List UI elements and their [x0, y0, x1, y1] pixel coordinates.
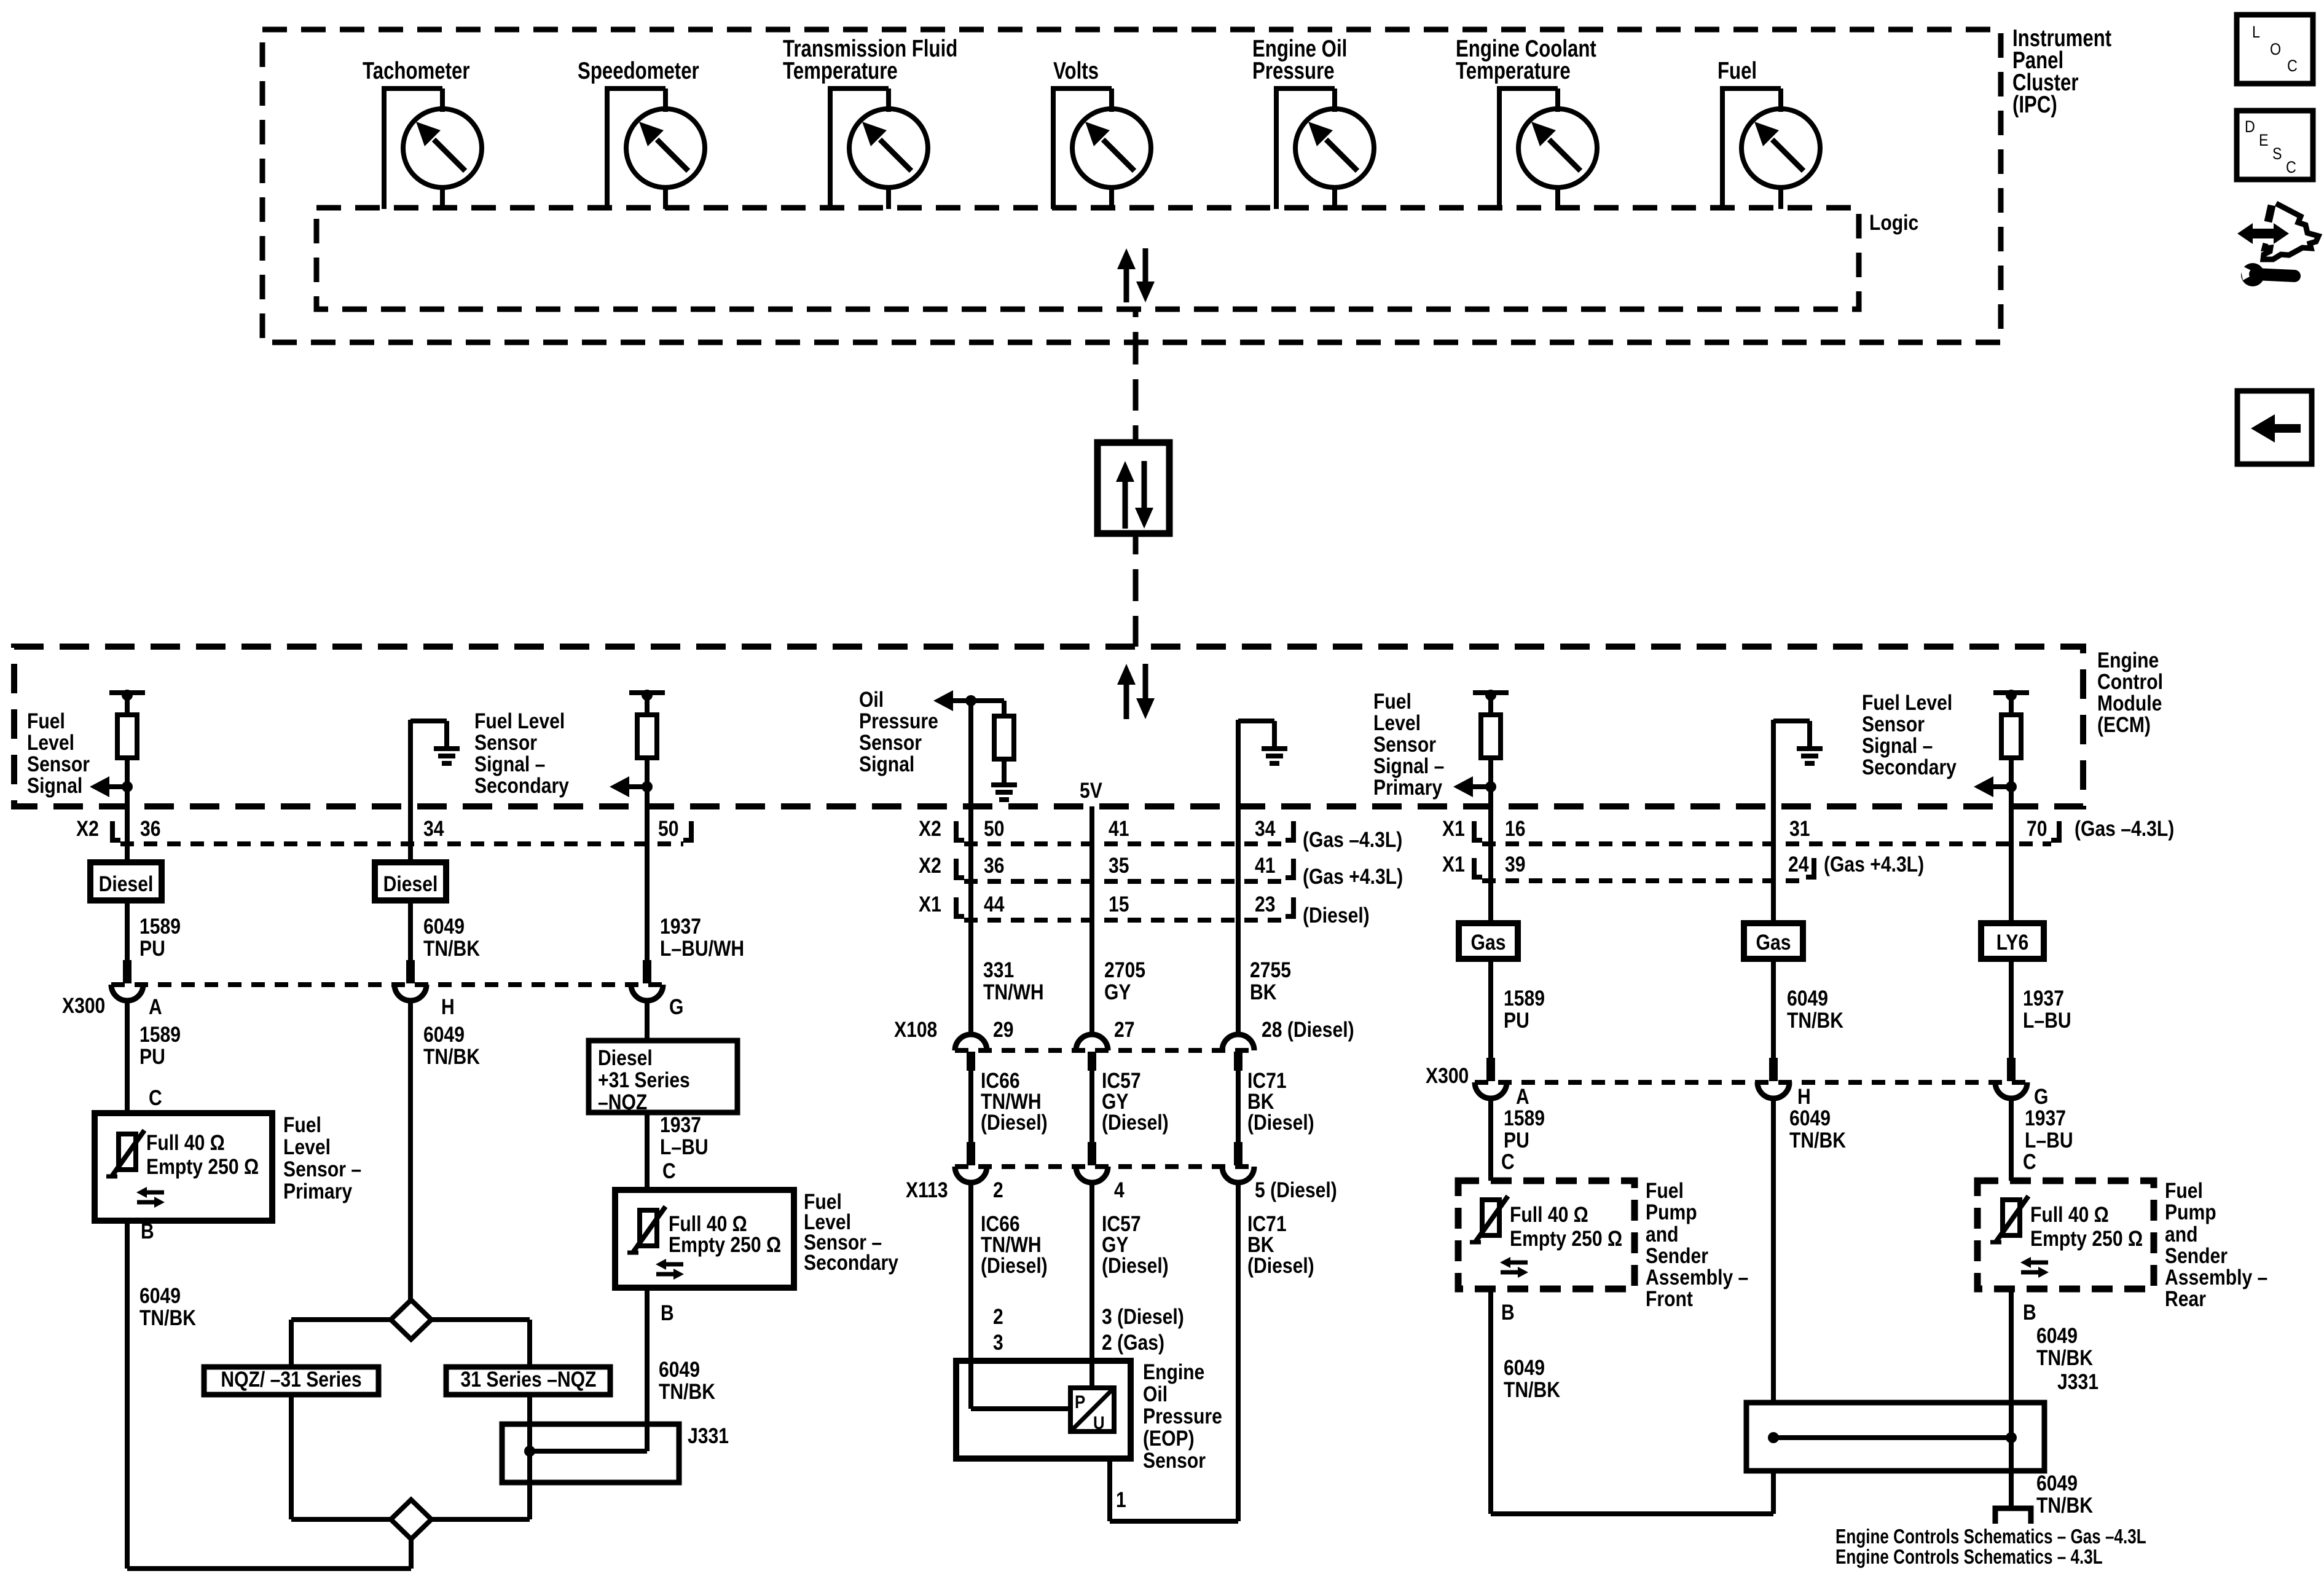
svg-text:Full 40 Ω: Full 40 Ω	[146, 1131, 225, 1155]
wire col C label 1937 L-BU/WH	[647, 845, 744, 961]
svg-text:6049: 6049	[659, 1358, 700, 1382]
connector X108 row	[894, 1018, 1354, 1050]
svg-text:X1: X1	[1442, 853, 1465, 876]
wire right branch lower	[431, 1395, 530, 1519]
gauge Fuel	[1720, 89, 1820, 209]
svg-text:36: 36	[984, 854, 1005, 878]
wire col G	[1488, 758, 1493, 844]
gauge Engine Oil Pressure	[1274, 89, 1374, 209]
svg-text:Gas: Gas	[1471, 931, 1506, 955]
svg-text:PU: PU	[139, 1045, 165, 1069]
Diesel tag col B	[375, 862, 446, 900]
connector terminal X300 right pin A	[1475, 1058, 1507, 1098]
wire col D labels 331 TN/WH	[971, 845, 1044, 1035]
splice J331 right label	[2057, 1370, 2098, 1394]
pin B col C	[661, 1301, 674, 1325]
Full/Empty values primary	[146, 1131, 259, 1179]
svg-text:44: 44	[984, 892, 1005, 916]
wire col C into J331	[645, 1288, 650, 1451]
svg-text:Sensor: Sensor	[27, 752, 90, 776]
back arrow box	[2237, 391, 2312, 464]
svg-text:Fuel: Fuel	[2165, 1179, 2203, 1203]
gauge labels	[363, 36, 1757, 84]
svg-text:–NQZ: –NQZ	[598, 1090, 647, 1114]
svg-text:PU: PU	[1504, 1009, 1529, 1033]
wire col A bottom	[127, 1221, 411, 1569]
J331 internal link left	[524, 1446, 647, 1457]
svg-text:Speedometer: Speedometer	[578, 58, 699, 84]
svg-text:PU: PU	[139, 937, 165, 961]
svg-text:Temperature: Temperature	[783, 58, 898, 84]
gauge Transmission Fluid Temperature	[828, 89, 928, 209]
svg-text:GY: GY	[1104, 980, 1131, 1004]
Fuel Pump and Sender Assembly - Front dashed box	[1458, 1181, 1635, 1289]
svg-text:Signal: Signal	[27, 774, 82, 798]
wire col D to EOP	[971, 1183, 1048, 1409]
svg-text:S: S	[2272, 144, 2282, 163]
variable resistor front sender	[1470, 1196, 1508, 1243]
svg-text:Secondary: Secondary	[474, 774, 569, 798]
svg-text:Sender: Sender	[2165, 1244, 2228, 1268]
svg-text:B: B	[1501, 1301, 1515, 1325]
wire col I 1937 L-BU	[2011, 959, 2071, 1058]
Fuel Level Sensor Signal - Secondary label	[474, 709, 569, 798]
serial data dashed wire upper	[1133, 309, 1139, 444]
svg-text:X300: X300	[62, 994, 105, 1018]
svg-text:Tachometer: Tachometer	[363, 58, 470, 84]
svg-text:H: H	[441, 995, 455, 1019]
svg-text:Sensor: Sensor	[1143, 1449, 1206, 1473]
svg-text:(Diesel): (Diesel)	[1303, 904, 1370, 927]
wire col B to Diesel tag	[408, 845, 413, 862]
Fuel Level Sensor Signal - Secondary label right	[1862, 691, 1957, 779]
signal arrow Fuel Level Sensor Signal - Secondary gas	[1974, 776, 2017, 797]
connector X300 left row	[62, 985, 683, 1019]
wire col F to EOP pin 1	[1110, 1183, 1314, 1521]
svg-text:Pressure: Pressure	[1143, 1404, 1222, 1428]
wire col H 6049 TN/BK	[1773, 959, 1843, 1058]
Fuel Level Sensor - Primary box	[95, 1113, 272, 1221]
svg-text:29: 29	[993, 1018, 1014, 1042]
svg-text:TN/BK: TN/BK	[2036, 1494, 2093, 1518]
svg-text:Pressure: Pressure	[859, 709, 938, 733]
connector terminal X300 right pin H	[1757, 1058, 1789, 1098]
svg-text:Oil: Oil	[859, 688, 884, 712]
svg-text:Temperature: Temperature	[1456, 58, 1571, 84]
svg-text:TN/BK: TN/BK	[2036, 1346, 2093, 1370]
IPC label	[2012, 25, 2111, 118]
svg-text:A: A	[1516, 1085, 1529, 1109]
svg-text:24: 24	[1788, 853, 1809, 876]
svg-text:Engine Controls Schematics – G: Engine Controls Schematics – Gas –4.3L	[1835, 1525, 2146, 1548]
connector terminal X113 pin 4	[1076, 1142, 1108, 1183]
svg-text:1589: 1589	[139, 915, 181, 939]
Fuel Pump and Sender Assembly - Front label	[1646, 1179, 1748, 1311]
svg-text:23: 23	[1255, 892, 1276, 916]
connector terminal X113 pin 5	[1222, 1142, 1254, 1183]
svg-text:TN/BK: TN/BK	[139, 1306, 196, 1330]
svg-text:2 (Gas): 2 (Gas)	[1102, 1331, 1164, 1355]
svg-text:31 Series –NQZ: 31 Series –NQZ	[461, 1368, 597, 1392]
wire col E 5V	[1089, 806, 1094, 845]
svg-text:(Diesel): (Diesel)	[1247, 1111, 1314, 1135]
node col I terminus	[1993, 690, 2029, 715]
svg-text:Fuel Level: Fuel Level	[1862, 691, 1952, 715]
svg-text:Secondary: Secondary	[804, 1251, 898, 1275]
svg-text:1589: 1589	[1504, 986, 1545, 1010]
5V label	[1080, 779, 1102, 803]
svg-text:and: and	[1646, 1223, 1679, 1246]
wire col B below X300	[410, 1001, 480, 1300]
svg-text:C: C	[2023, 1150, 2036, 1174]
svg-text:D: D	[2245, 117, 2255, 136]
svg-text:41: 41	[1255, 854, 1276, 878]
gauge Volts	[1051, 89, 1151, 209]
svg-text:Sensor: Sensor	[1373, 733, 1436, 757]
signal arrow Oil Pressure Sensor Signal	[933, 690, 976, 711]
Diesel +31 Series -NQZ tag	[589, 1041, 737, 1114]
bidirectional arrows primary	[136, 1187, 165, 1208]
svg-text:1589: 1589	[1504, 1106, 1545, 1130]
wire col D branch to pull-up	[971, 701, 1004, 716]
svg-text:Primary: Primary	[283, 1179, 353, 1203]
gauge Engine Coolant Temperature	[1497, 89, 1597, 209]
bidirectional arrows front	[1500, 1257, 1528, 1278]
ground ECM internal ground D	[991, 785, 1017, 800]
svg-text:NQZ/ –31 Series: NQZ/ –31 Series	[221, 1368, 361, 1392]
wire col F labels 2755 BK	[1238, 845, 1291, 1035]
resistor ECM pull-up col D	[994, 716, 1014, 759]
svg-text:B: B	[141, 1219, 154, 1243]
svg-text:A: A	[149, 995, 162, 1019]
svg-text:Control: Control	[2097, 670, 2163, 694]
svg-text:Level: Level	[283, 1135, 331, 1159]
wire col A	[125, 758, 130, 845]
svg-text:6049: 6049	[1787, 986, 1828, 1010]
wire col D inside EOP	[971, 1406, 1070, 1411]
svg-text:PU: PU	[1504, 1128, 1529, 1152]
connector terminal X108 pin 29	[955, 1034, 987, 1071]
svg-text:Primary: Primary	[1373, 776, 1443, 800]
svg-text:Empty 250 Ω: Empty 250 Ω	[2030, 1227, 2143, 1251]
Fuel Level Sensor - Secondary box	[615, 1190, 794, 1288]
svg-text:34: 34	[1255, 817, 1276, 841]
gauge Tachometer	[382, 89, 482, 209]
wire left branch	[291, 1320, 391, 1367]
wire col I	[2009, 758, 2014, 844]
svg-text:G: G	[669, 995, 683, 1019]
svg-text:C: C	[2287, 57, 2298, 75]
bidirectional arrows rear	[2020, 1257, 2049, 1278]
svg-text:L–BU: L–BU	[2025, 1128, 2073, 1152]
svg-text:1937: 1937	[2025, 1106, 2066, 1130]
svg-text:Engine: Engine	[2097, 648, 2159, 672]
svg-text:4: 4	[1114, 1178, 1125, 1202]
wire col I to LY6 tag	[2009, 844, 2014, 923]
svg-text:Sensor –: Sensor –	[283, 1157, 361, 1181]
svg-text:Logic: Logic	[1869, 211, 1918, 235]
svg-text:6049: 6049	[2036, 1324, 2078, 1348]
svg-text:Sensor: Sensor	[859, 731, 922, 755]
ground ECM internal ground H	[1797, 749, 1823, 763]
svg-text:Level: Level	[1373, 711, 1421, 735]
svg-text:Secondary: Secondary	[1862, 755, 1957, 779]
wire col H below X300	[1773, 1098, 1846, 1403]
svg-text:L–BU: L–BU	[660, 1135, 709, 1159]
svg-text:TN/BK: TN/BK	[423, 1045, 480, 1069]
wire col E to EOP	[1092, 1183, 1184, 1388]
svg-text:H: H	[1797, 1085, 1811, 1109]
EOP Sensor label	[1143, 1360, 1222, 1473]
svg-text:Fuel Level: Fuel Level	[474, 709, 565, 733]
wire col B to ground	[410, 720, 447, 845]
svg-text:6049: 6049	[423, 915, 465, 939]
svg-text:(Diesel): (Diesel)	[1247, 1254, 1314, 1278]
svg-text:6049: 6049	[1504, 1356, 1545, 1380]
svg-text:Diesel: Diesel	[598, 1046, 653, 1070]
svg-text:TN/BK: TN/BK	[1504, 1378, 1560, 1402]
wire col A to Diesel tag	[125, 845, 130, 862]
svg-text:Module: Module	[2097, 691, 2162, 715]
svg-text:Signal –: Signal –	[1373, 754, 1444, 778]
variable resistor rear sender	[1990, 1196, 2028, 1243]
svg-text:Engine Controls Schematics – 4: Engine Controls Schematics – 4.3L	[1835, 1545, 2103, 1568]
wire right branch	[431, 1320, 530, 1367]
node col A terminus	[109, 690, 145, 715]
connector terminal X300 pin A	[111, 960, 143, 1001]
svg-text:(Gas +4.3L): (Gas +4.3L)	[1824, 853, 1924, 876]
Diesel tag col A	[90, 862, 162, 900]
connector X113 row	[906, 1167, 1337, 1202]
svg-text:L–BU: L–BU	[2023, 1009, 2071, 1033]
harness wire IC66 X108-X113	[971, 1069, 1048, 1146]
svg-text:2755: 2755	[1250, 958, 1291, 982]
svg-text:50: 50	[658, 817, 679, 841]
wire col E labels 2705 GY	[1092, 845, 1145, 1035]
diagnostic tool icon	[2237, 203, 2318, 286]
svg-text:2: 2	[993, 1178, 1003, 1202]
svg-text:Rear: Rear	[2165, 1287, 2206, 1311]
svg-text:Level: Level	[27, 731, 74, 755]
svg-text:1937: 1937	[2023, 986, 2064, 1010]
svg-text:(Diesel): (Diesel)	[981, 1111, 1048, 1135]
junction diamond top	[391, 1300, 431, 1339]
svg-text:X108: X108	[894, 1018, 937, 1042]
signal arrow Fuel Level Sensor Signal - Primary	[1453, 776, 1496, 797]
bidirectional arrows secondary	[656, 1259, 684, 1280]
svg-text:1: 1	[1116, 1488, 1126, 1512]
svg-text:J331: J331	[2057, 1370, 2098, 1394]
svg-text:15: 15	[1109, 892, 1129, 916]
NQZ/ -31 Series tag	[204, 1367, 379, 1395]
svg-text:Front: Front	[1646, 1287, 1693, 1311]
svg-text:Diesel: Diesel	[383, 872, 438, 896]
serial data link connector box	[1097, 443, 1169, 534]
pin B rear	[2023, 1301, 2036, 1325]
svg-text:and: and	[2165, 1223, 2198, 1246]
svg-text:(ECM): (ECM)	[2097, 713, 2151, 737]
svg-text:(Gas –4.3L): (Gas –4.3L)	[1303, 828, 1402, 852]
Engine Controls Schematics references	[1835, 1525, 2146, 1568]
svg-text:39: 39	[1505, 853, 1526, 876]
serial data arrows in Logic box	[1117, 248, 1155, 302]
31 Series -NQZ tag	[446, 1367, 610, 1395]
J331 internal link right	[1768, 1432, 2017, 1443]
svg-text:L: L	[2252, 23, 2260, 41]
svg-text:C: C	[149, 1086, 162, 1110]
svg-text:331: 331	[983, 958, 1014, 982]
svg-text:(Gas –4.3L): (Gas –4.3L)	[2075, 817, 2174, 841]
connector rows right (X1/X1)	[1442, 817, 2174, 881]
harness wire IC57 X108-X113	[1092, 1069, 1169, 1146]
svg-text:(Diesel): (Diesel)	[1102, 1111, 1169, 1135]
ECM label	[2097, 648, 2163, 737]
Full/Empty values front	[1510, 1203, 1622, 1251]
connector terminal X108 pin 28	[1222, 1034, 1254, 1071]
resistor ECM pull-up col G	[1481, 715, 1501, 758]
ground ECM internal ground F	[1262, 749, 1287, 763]
svg-text:6049: 6049	[2036, 1471, 2078, 1495]
svg-text:27: 27	[1114, 1018, 1135, 1042]
Logic label	[1869, 211, 1918, 235]
svg-text:1937: 1937	[660, 915, 701, 939]
wire below pull-up D	[1002, 759, 1007, 785]
svg-text:Empty 250 Ω: Empty 250 Ω	[669, 1233, 781, 1257]
svg-text:31: 31	[1789, 817, 1810, 841]
connector X300 right row	[1426, 1064, 2048, 1109]
Fuel Level Sensor - Secondary label	[804, 1190, 898, 1275]
svg-text:Fuel: Fuel	[283, 1113, 321, 1137]
signal arrow Fuel Level Sensor Signal	[90, 776, 133, 797]
svg-text:Signal: Signal	[859, 752, 914, 776]
wire col D	[968, 701, 973, 845]
svg-text:1937: 1937	[660, 1113, 701, 1137]
harness wire IC71 X108-X113	[1238, 1069, 1314, 1146]
svg-text:TN/WH: TN/WH	[983, 980, 1044, 1004]
node col G terminus	[1473, 690, 1509, 715]
connector terminal X108 pin 27	[1076, 1034, 1108, 1071]
svg-text:Signal –: Signal –	[1862, 734, 1933, 758]
wire col I below J331	[2011, 1438, 2093, 1518]
Full/Empty values rear	[2030, 1203, 2143, 1251]
Fuel Pump and Sender Assembly - Rear dashed box	[1977, 1181, 2154, 1289]
wire col H to Gas tag	[1771, 844, 1776, 923]
svg-text:+31 Series: +31 Series	[598, 1068, 690, 1092]
svg-text:Assembly –: Assembly –	[1646, 1266, 1748, 1290]
svg-text:3 (Diesel): 3 (Diesel)	[1102, 1305, 1184, 1329]
gauge Speedometer	[605, 89, 705, 209]
Oil Pressure Sensor Signal label	[859, 688, 938, 776]
svg-text:LY6: LY6	[1996, 931, 2028, 955]
svg-text:G: G	[2034, 1085, 2048, 1109]
wire diamond stem	[409, 1539, 414, 1569]
svg-text:(EOP): (EOP)	[1143, 1427, 1195, 1451]
svg-text:35: 35	[1109, 854, 1129, 878]
wire col I below X300	[2011, 1098, 2073, 1181]
svg-text:34: 34	[423, 817, 444, 841]
wire col A 1589 PU below X300	[127, 1001, 181, 1113]
svg-text:Fuel: Fuel	[1717, 58, 1757, 84]
svg-text:6049: 6049	[1789, 1106, 1831, 1130]
wire col F to ground	[1238, 720, 1274, 845]
svg-text:TN/BK: TN/BK	[423, 937, 480, 961]
svg-text:Engine: Engine	[1143, 1360, 1204, 1384]
svg-text:O: O	[2270, 40, 2281, 58]
connector terminal X300 right pin G	[1995, 1058, 2027, 1098]
svg-text:Full 40 Ω: Full 40 Ω	[1510, 1203, 1588, 1227]
resistor ECM pull-up col A	[117, 715, 137, 758]
svg-text:Fuel: Fuel	[1646, 1179, 1684, 1203]
svg-text:6049: 6049	[139, 1284, 181, 1308]
svg-text:Sensor: Sensor	[1862, 712, 1925, 736]
Gas tag col G	[1459, 923, 1518, 959]
svg-text:5V: 5V	[1080, 779, 1102, 803]
Full/Empty values secondary	[669, 1212, 781, 1257]
off-page connector symbol	[1995, 1508, 2031, 1524]
resistor ECM pull-up col I	[2001, 715, 2021, 758]
P/U pressure transducer symbol	[1070, 1388, 1114, 1433]
wire col H below J331	[1771, 1471, 1776, 1514]
svg-text:E: E	[2259, 131, 2269, 149]
svg-text:TN/BK: TN/BK	[1789, 1128, 1846, 1152]
svg-text:70: 70	[2027, 817, 2047, 841]
wire col G to Gas tag	[1488, 844, 1493, 923]
svg-text:Volts: Volts	[1053, 58, 1099, 84]
resistor ECM pull-up col C	[637, 715, 657, 758]
svg-text:X1: X1	[919, 892, 941, 916]
connector rows middle (X2/X2/X1)	[919, 817, 1403, 927]
svg-text:2705: 2705	[1104, 958, 1145, 982]
svg-text:41: 41	[1109, 817, 1129, 841]
svg-text:Empty 250 Ω: Empty 250 Ω	[1510, 1227, 1622, 1251]
svg-text:Assembly –: Assembly –	[2165, 1266, 2267, 1290]
svg-text:X1: X1	[1442, 817, 1465, 841]
node col C terminus	[629, 690, 665, 715]
wire col G bottom	[1491, 1289, 1773, 1514]
svg-text:Signal –: Signal –	[474, 752, 545, 776]
wire col G below X300	[1491, 1098, 1545, 1181]
svg-text:16: 16	[1505, 817, 1526, 841]
splice J331 left label	[688, 1424, 729, 1448]
wire col G 1589 PU	[1491, 959, 1545, 1058]
pin 1 label	[1116, 1488, 1126, 1512]
svg-text:Empty 250 Ω: Empty 250 Ω	[146, 1155, 259, 1179]
connector X2 row left (36/34/50)	[76, 817, 691, 844]
splice J331 right box	[1746, 1403, 2044, 1471]
serial data dashed wire lower	[1133, 534, 1139, 647]
svg-text:Oil: Oil	[1143, 1382, 1168, 1406]
svg-text:3: 3	[993, 1331, 1003, 1355]
connector terminal X113 pin 2	[955, 1142, 987, 1183]
variable resistor Fuel Level Sensor Secondary	[627, 1207, 665, 1253]
Gas tag col H	[1744, 923, 1803, 959]
svg-text:6049: 6049	[423, 1023, 465, 1047]
svg-text:Pump: Pump	[2165, 1200, 2216, 1224]
wire col A label 1589 PU	[127, 900, 181, 961]
svg-text:(Diesel): (Diesel)	[1102, 1254, 1169, 1278]
svg-text:C: C	[1501, 1150, 1515, 1174]
svg-text:2: 2	[993, 1305, 1003, 1329]
svg-text:J331: J331	[688, 1424, 729, 1448]
connector terminal X300 pin H	[395, 960, 426, 1001]
svg-text:(IPC): (IPC)	[2012, 92, 2057, 118]
wire col I to J331 right	[2011, 1289, 2093, 1438]
serial data arrows at ECM	[1117, 664, 1155, 719]
connector terminal X300 pin G	[631, 960, 663, 1001]
svg-text:TN/BK: TN/BK	[659, 1380, 715, 1404]
wire col C	[645, 758, 650, 845]
LOC reference box	[2237, 15, 2313, 84]
